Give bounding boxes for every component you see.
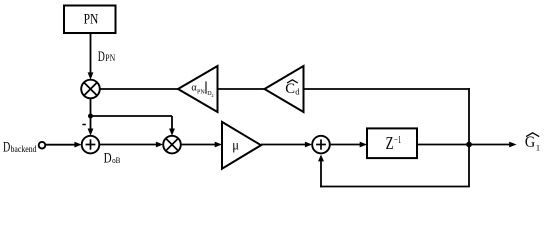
amplifier C_d hat <box>265 66 304 112</box>
label minus sign <box>82 124 85 126</box>
label G_1 hat output <box>525 133 540 153</box>
junction dot J1 <box>88 114 93 119</box>
svg-text:backend: backend <box>11 144 38 154</box>
amplifier alpha_PN|D2 <box>178 66 218 112</box>
wire summer S1 to multiplier M2 <box>99 142 163 148</box>
wire M1 to amplifier alpha <box>100 88 179 90</box>
multiplier M1 <box>81 80 100 99</box>
wire summer S2 to block Z <box>330 142 367 148</box>
wire Cd to right feedback riser <box>304 88 470 144</box>
summer S1 <box>82 136 100 154</box>
block PN <box>64 6 116 34</box>
wire junction J1 to multiplier M2 <box>91 116 175 136</box>
amplifier mu <box>222 122 261 169</box>
wire junction J1 to summer S1 <box>88 116 94 136</box>
svg-text:D: D <box>98 49 105 65</box>
block Z^-1 <box>367 128 417 158</box>
label D_backend <box>3 139 37 155</box>
svg-text:PN: PN <box>84 12 99 28</box>
multiplier M2 <box>163 136 181 154</box>
input terminal <box>39 142 46 149</box>
svg-text:C: C <box>285 81 295 97</box>
label D_PN <box>98 49 116 65</box>
svg-text:2: 2 <box>211 93 213 98</box>
svg-text:μ: μ <box>232 139 239 154</box>
wire alpha to amplifier Cd <box>218 88 266 90</box>
svg-text:PN: PN <box>197 88 205 95</box>
svg-text:oB: oB <box>112 155 120 165</box>
svg-text:1: 1 <box>536 142 540 152</box>
wire M2 to amplifier mu <box>181 142 222 148</box>
svg-text:−1: −1 <box>394 135 401 146</box>
label D_oB <box>104 151 121 167</box>
wire terminal to summer S1 <box>46 142 82 148</box>
wire PN to multiplier M1 <box>88 33 94 79</box>
svg-text:d: d <box>295 87 300 97</box>
svg-text:D: D <box>104 151 112 167</box>
wire mu to summer S2 <box>261 142 312 148</box>
svg-text:PN: PN <box>105 53 115 63</box>
svg-text:Z: Z <box>386 133 394 153</box>
wire M1 down to junction <box>90 98 92 116</box>
junction dot J2 <box>466 142 472 148</box>
svg-text:D: D <box>3 139 10 155</box>
summer S2 <box>312 136 330 154</box>
wire feedback bottom loop <box>318 145 470 188</box>
wire Z to output <box>417 142 517 148</box>
